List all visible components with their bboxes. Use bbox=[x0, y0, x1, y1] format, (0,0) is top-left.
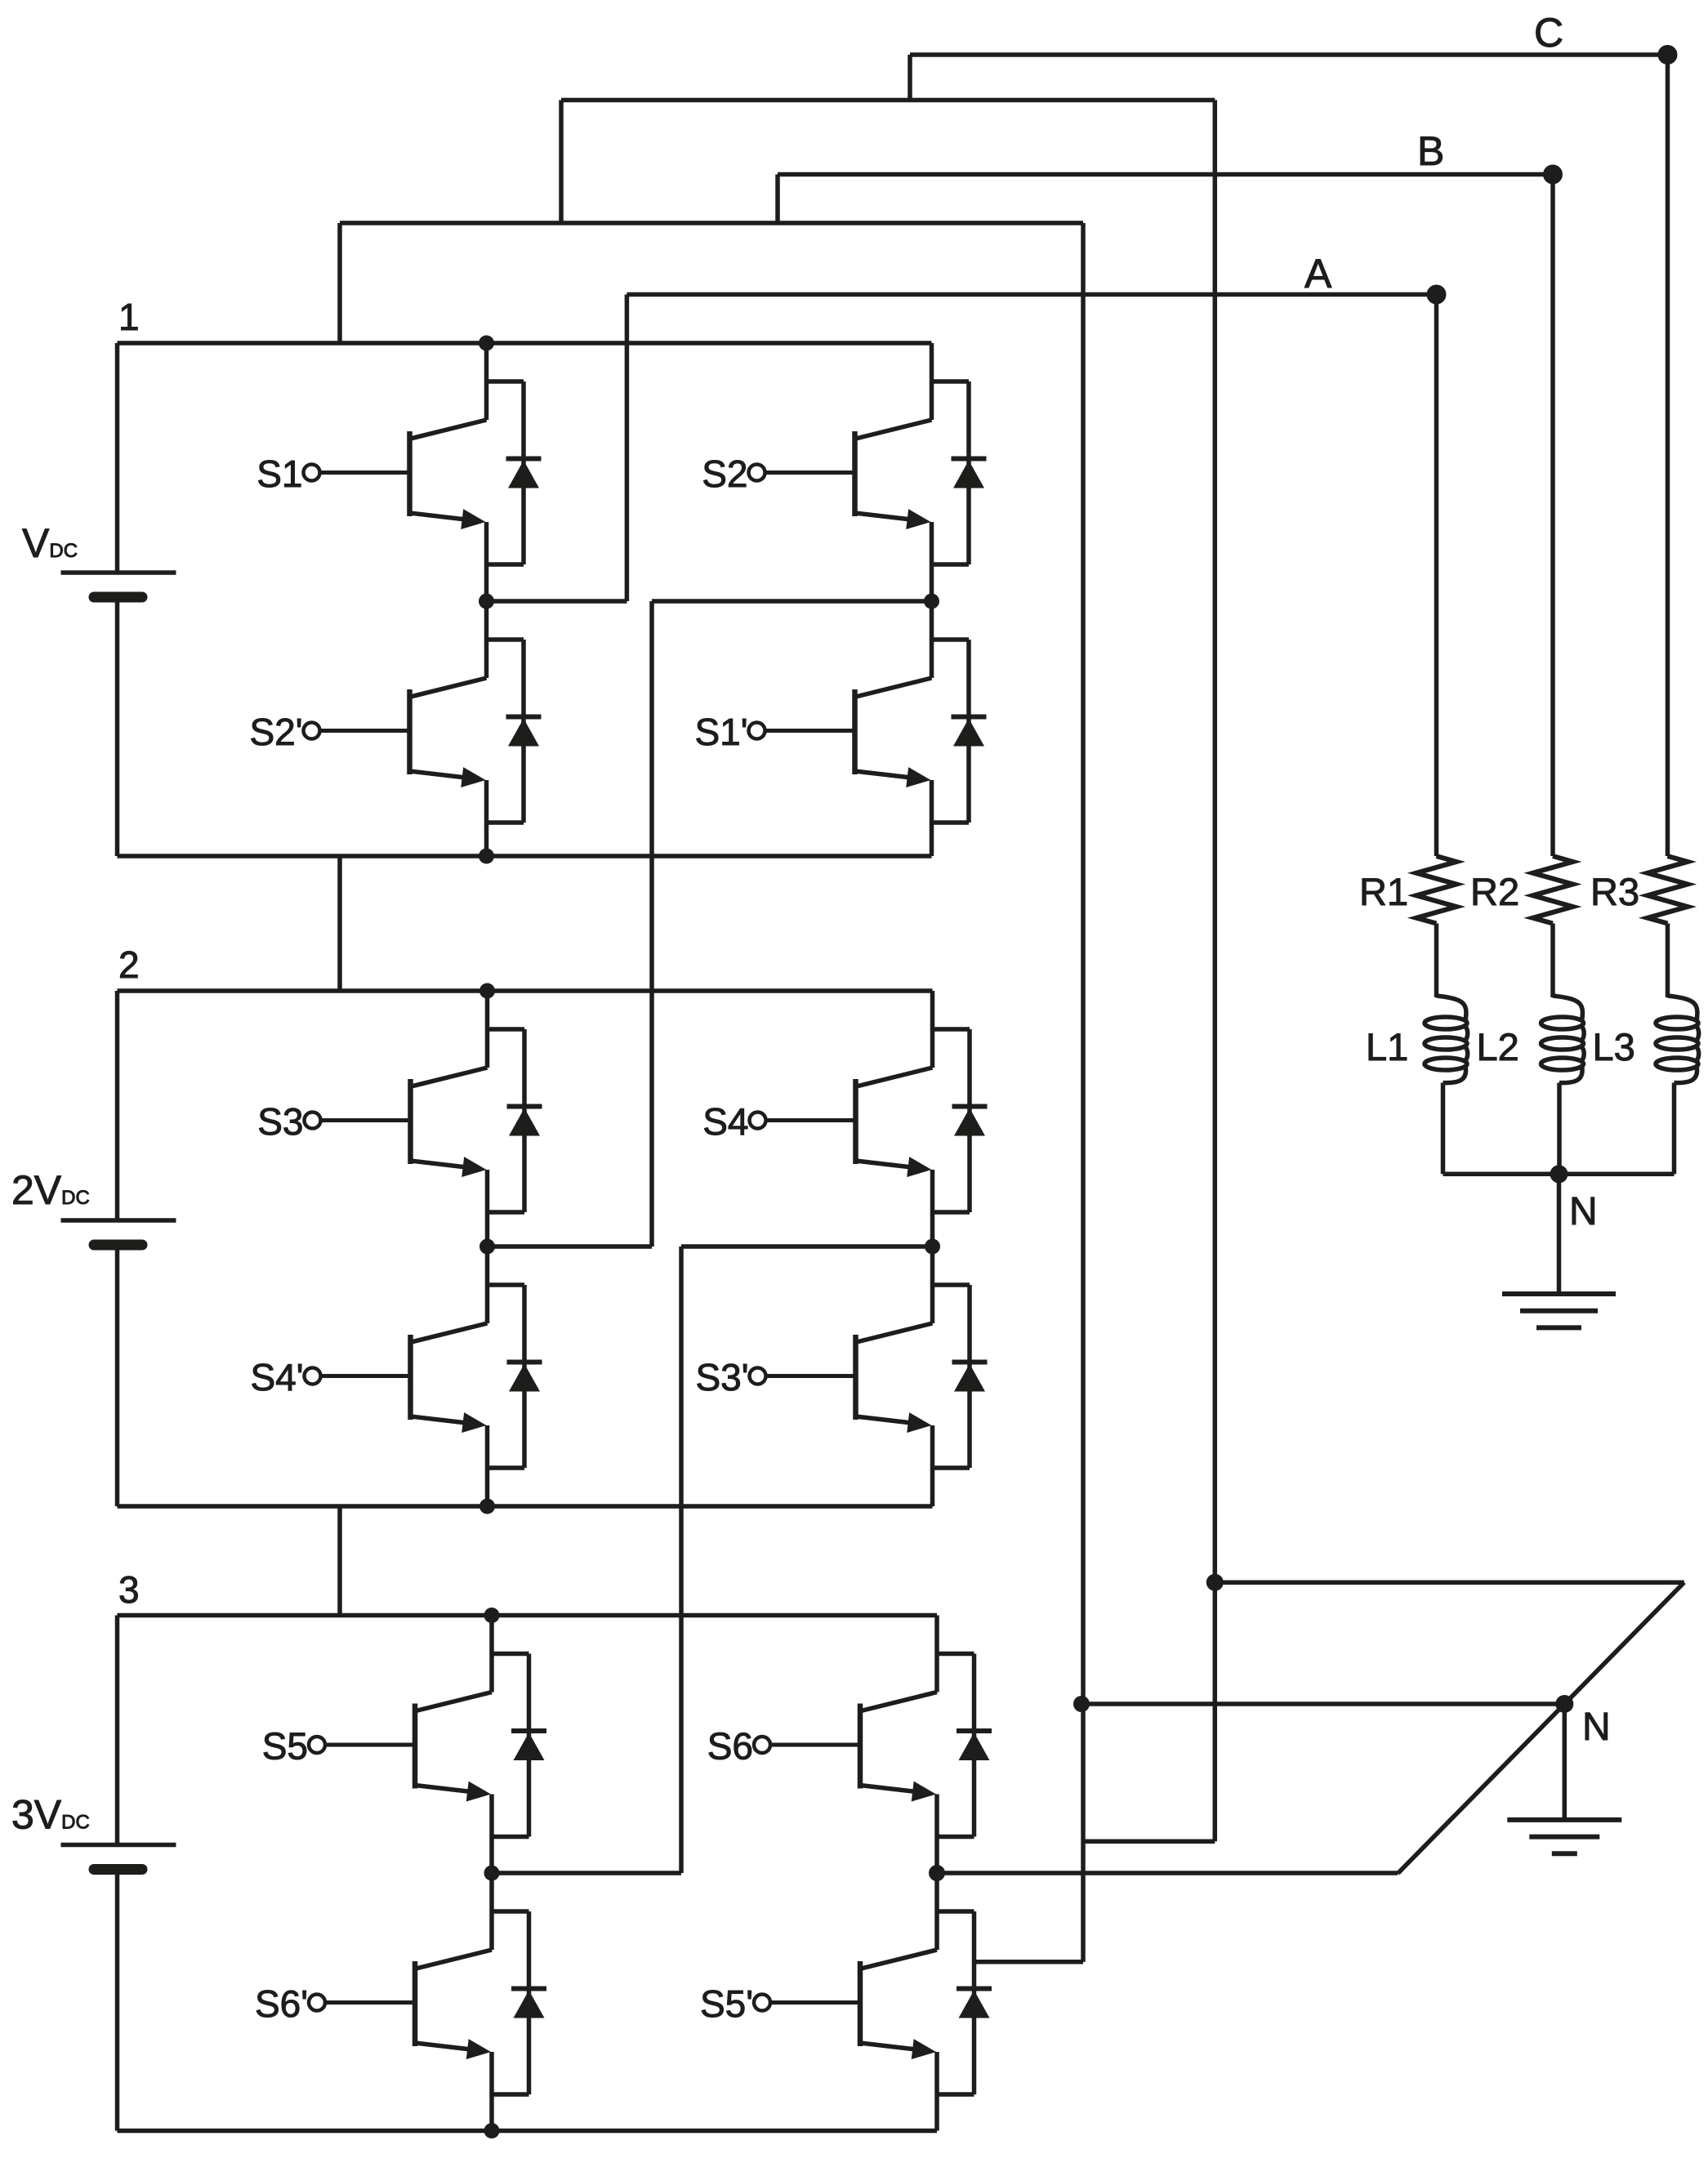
svg-text:S6: S6 bbox=[707, 1725, 753, 1768]
svg-text:S6': S6' bbox=[255, 1982, 308, 2025]
svg-text:R2: R2 bbox=[1470, 870, 1519, 913]
svg-text:R3: R3 bbox=[1590, 870, 1639, 913]
svg-text:S3': S3' bbox=[695, 1356, 748, 1398]
svg-text:S5': S5' bbox=[700, 1982, 753, 2025]
svg-text:S2: S2 bbox=[702, 453, 747, 495]
svg-text:S3: S3 bbox=[257, 1100, 303, 1143]
svg-text:S1: S1 bbox=[256, 453, 302, 495]
svg-text:C: C bbox=[1534, 10, 1563, 56]
svg-text:S4': S4' bbox=[250, 1356, 303, 1398]
svg-text:S2': S2' bbox=[249, 711, 302, 753]
svg-text:L1: L1 bbox=[1366, 1025, 1408, 1068]
svg-text:A: A bbox=[1304, 251, 1332, 297]
svg-text:2: 2 bbox=[118, 943, 140, 986]
svg-text:L3: L3 bbox=[1593, 1025, 1635, 1068]
svg-text:L2: L2 bbox=[1477, 1025, 1519, 1068]
svg-text:R1: R1 bbox=[1359, 870, 1408, 913]
svg-text:1: 1 bbox=[118, 296, 140, 338]
svg-text:N: N bbox=[1569, 1190, 1598, 1233]
svg-text:S4: S4 bbox=[702, 1100, 748, 1143]
svg-text:B: B bbox=[1417, 128, 1444, 174]
svg-text:N: N bbox=[1582, 1706, 1611, 1749]
svg-text:3: 3 bbox=[118, 1568, 140, 1611]
svg-text:S1': S1' bbox=[694, 711, 747, 753]
svg-text:S5: S5 bbox=[262, 1725, 308, 1768]
